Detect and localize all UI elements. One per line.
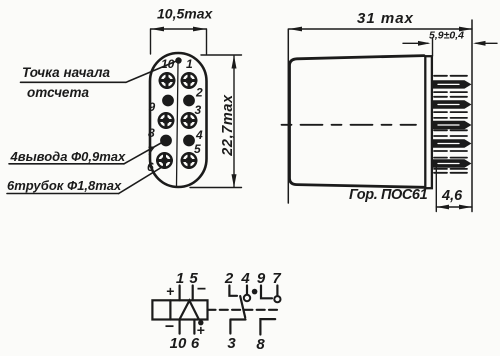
svg-text:−: − (197, 281, 206, 298)
svg-text:31 max: 31 max (357, 10, 414, 27)
svg-text:5,9±0,4: 5,9±0,4 (429, 30, 464, 42)
svg-text:8: 8 (256, 336, 265, 353)
svg-text:5: 5 (194, 142, 201, 156)
pin 3 tube (row3 right) (182, 113, 196, 127)
coil divider (169, 300, 171, 319)
svg-text:4: 4 (240, 270, 250, 287)
pin 10 lead (179, 320, 181, 334)
contact pin 4 (NO fixed with circle) (246, 286, 248, 295)
winding polarity dot (198, 320, 203, 325)
pin 7 solid (row4 left) (161, 135, 172, 146)
pin 1 tube (row1 right) (182, 73, 196, 87)
tube pin bars side view (433, 80, 472, 168)
dimension 31 max (289, 28, 472, 30)
junction dot (252, 289, 258, 295)
center axis line (177, 63, 179, 186)
mechanical link dashed (208, 309, 279, 311)
svg-text:9: 9 (149, 100, 156, 114)
svg-text:1: 1 (176, 270, 184, 287)
label: Точка начала отсчета (22, 65, 111, 100)
svg-text:4вывода Ф0,9max: 4вывода Ф0,9max (10, 149, 127, 164)
svg-text:1: 1 (186, 57, 193, 71)
contact pin 9 (NC fixed) (261, 286, 272, 299)
coil rectangle (152, 300, 207, 319)
svg-text:Точка начала: Точка начала (22, 65, 111, 80)
side view body (290, 56, 425, 188)
flange (425, 56, 432, 188)
svg-text:22,7max: 22,7max (220, 94, 236, 157)
schematic pin numbers bottom (170, 335, 266, 353)
svg-text:4: 4 (195, 128, 203, 142)
movable arm group 2 and pin 8 (260, 319, 275, 334)
contact pin 2 (NC fixed) (229, 286, 237, 296)
svg-text:5: 5 (189, 270, 198, 287)
svg-text:3: 3 (195, 103, 202, 117)
pin 9 solid (row2 left) (163, 95, 174, 106)
pin 1 lead (179, 286, 181, 301)
coil polarity triangle (180, 301, 199, 320)
svg-text:3: 3 (227, 335, 236, 352)
pin 6 lead (193, 320, 195, 334)
pin 10 tube (row1 left) (160, 73, 174, 87)
right extension line (471, 20, 473, 212)
dimension 22,7max (190, 55, 242, 188)
pin 5 lead (192, 286, 194, 301)
svg-text:4,6: 4,6 (441, 188, 463, 204)
dimension 4,6 (435, 167, 437, 212)
base view outline (stadium) (150, 53, 207, 187)
svg-text:8: 8 (148, 126, 155, 140)
svg-text:2: 2 (224, 270, 234, 287)
svg-text:10: 10 (170, 335, 187, 352)
pin number labels base view (147, 57, 203, 174)
side view center dash line (282, 124, 417, 126)
svg-text:−: − (165, 319, 174, 336)
pin 6 tube (row5 left) (157, 153, 171, 167)
side view left extension line (287, 29, 289, 203)
schematic pin numbers top (176, 270, 282, 287)
svg-text:10,5max: 10,5max (157, 6, 213, 22)
svg-text:отсчета: отсчета (27, 85, 89, 100)
dimension 10,5max (151, 29, 207, 54)
pin 4 solid (row4 right) (184, 135, 195, 146)
polarity signs (165, 281, 206, 338)
reference start point dot (175, 57, 181, 63)
movable arm group 1 and pin 3 (230, 296, 245, 333)
dimension 5,9±0,4 (403, 42, 428, 44)
pins side view: thin lead row (434, 76, 467, 173)
pin 5 tube (row5 right) (182, 153, 196, 167)
pin 2 solid (row2 right) (184, 95, 195, 106)
svg-text:7: 7 (272, 270, 281, 287)
svg-text:2: 2 (195, 86, 203, 100)
contact pin 7 (NO fixed with circle) (276, 286, 278, 296)
svg-text:6трубок Ф1,8max: 6трубок Ф1,8max (7, 178, 122, 193)
svg-text:Гор. ПОС61: Гор. ПОС61 (349, 187, 428, 203)
svg-text:6: 6 (191, 335, 200, 352)
svg-text:+: + (166, 283, 174, 299)
pin 8 tube (row3 left) (159, 113, 173, 127)
